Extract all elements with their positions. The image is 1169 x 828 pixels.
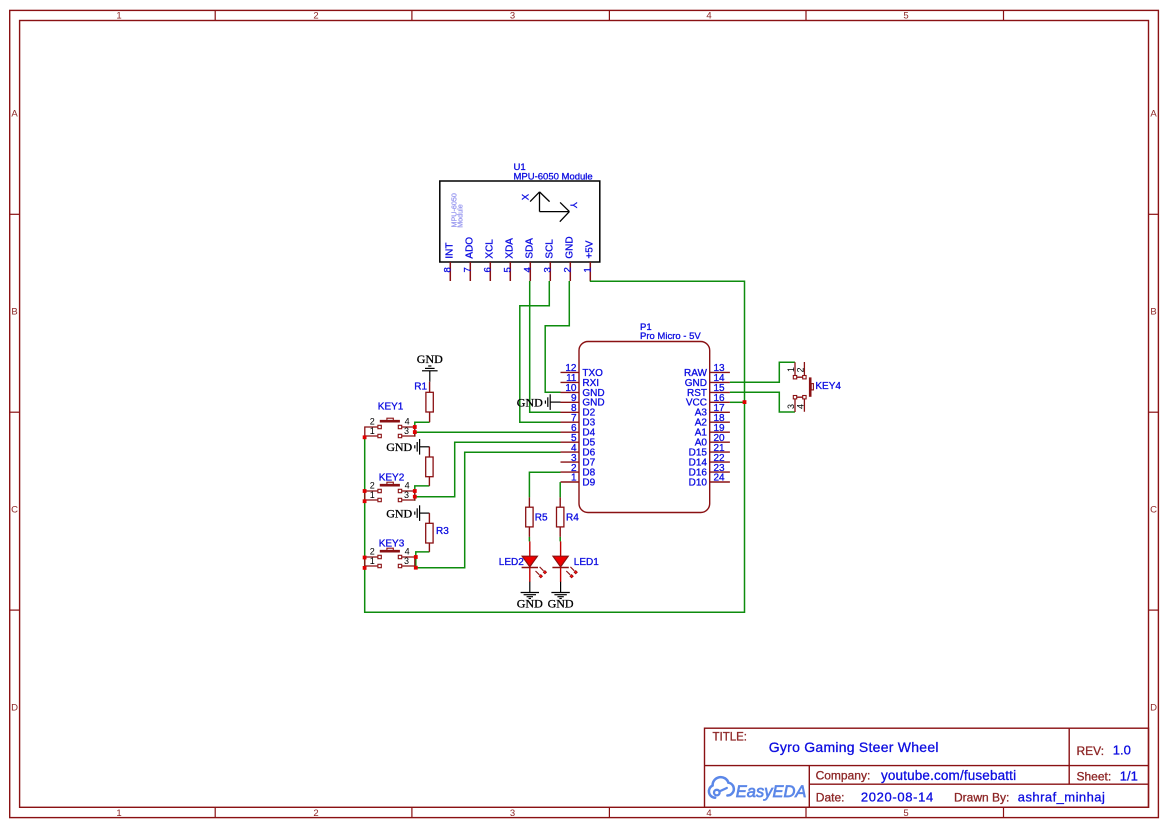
P1 pin 9 GND <box>561 393 605 409</box>
svg-text:XCL: XCL <box>485 239 496 259</box>
svg-text:2: 2 <box>313 11 318 22</box>
svg-text:GND: GND <box>386 506 412 520</box>
svg-text:7: 7 <box>462 267 473 272</box>
P1 pin 6 D4 <box>561 423 596 439</box>
svg-text:8: 8 <box>442 267 453 272</box>
IC P1 Pro Micro body <box>579 342 710 513</box>
svg-text:4: 4 <box>796 404 806 409</box>
junction KEY1 pin4 <box>413 425 417 429</box>
svg-text:R4: R4 <box>566 512 579 523</box>
svg-text:Date:: Date: <box>816 790 845 804</box>
svg-text:2: 2 <box>370 546 375 556</box>
title block outline <box>705 728 1149 807</box>
svg-text:A: A <box>1150 109 1157 120</box>
junction KEY3 pin1 <box>363 566 367 570</box>
svg-text:6: 6 <box>482 267 493 272</box>
P1 pin 18 A2 <box>695 413 730 429</box>
resistor R5 <box>526 497 533 537</box>
junction VCC rail <box>743 400 747 404</box>
svg-text:A: A <box>11 109 18 120</box>
frame row letters left <box>11 109 18 714</box>
junction KEY1 pin1 <box>363 435 367 439</box>
switch KEY3 <box>365 548 415 568</box>
resistor R1 <box>426 382 433 422</box>
svg-text:B: B <box>1150 307 1156 318</box>
resistor R3 <box>426 513 433 552</box>
svg-text:INT: INT <box>445 242 456 258</box>
U1 pin 8 INT <box>442 242 455 281</box>
svg-text:1: 1 <box>116 808 121 819</box>
P1 pin 4 D6 <box>561 443 596 459</box>
svg-text:D: D <box>11 703 18 714</box>
U1 pin 7 ADO <box>462 237 475 281</box>
svg-text:1: 1 <box>370 556 375 566</box>
svg-text:TITLE:: TITLE: <box>713 731 748 743</box>
svg-text:1.0: 1.0 <box>1113 743 1131 758</box>
svg-text:GND: GND <box>417 352 443 366</box>
svg-text:KEY1: KEY1 <box>378 401 404 412</box>
svg-text:GND: GND <box>548 597 574 611</box>
svg-text:4: 4 <box>522 267 533 272</box>
resistor R4 <box>557 497 564 537</box>
wire D8 to R5 <box>529 472 560 497</box>
IC U1 MPU-6050 Module body <box>440 181 600 262</box>
junction KEY3 pin3 <box>414 566 418 570</box>
junction KEY2 pin4 <box>413 489 417 493</box>
U1 pin 3 SCL <box>542 239 555 281</box>
P1 pin 24 D10 <box>689 473 730 489</box>
ground flag for R2 <box>415 439 430 455</box>
svg-text:GND: GND <box>565 236 576 258</box>
svg-text:REV:: REV: <box>1077 744 1105 758</box>
U1 pin 5 XDA <box>502 238 515 281</box>
P1 pin 21 D15 <box>689 443 730 459</box>
U1 pin 1 +5V <box>582 240 595 281</box>
svg-text:R1: R1 <box>414 382 427 393</box>
svg-text:5: 5 <box>903 11 908 22</box>
svg-text:D10: D10 <box>689 477 708 488</box>
U1 pin 2 GND <box>562 236 575 281</box>
svg-text:LED1: LED1 <box>574 557 599 568</box>
frame column numbers bottom <box>116 808 908 819</box>
svg-text:2: 2 <box>313 808 318 819</box>
svg-text:GND: GND <box>517 597 543 611</box>
wire R1 to KEY1 <box>415 422 430 436</box>
svg-text:3: 3 <box>404 556 409 566</box>
svg-text:ashraf_minhaj: ashraf_minhaj <box>1018 790 1106 805</box>
svg-text:D: D <box>1150 703 1157 714</box>
svg-text:3: 3 <box>542 267 553 272</box>
wire KEY3 to D6 <box>416 452 561 567</box>
LED LED2 <box>522 541 548 582</box>
P1 pin 11 RXI <box>561 373 600 389</box>
svg-text:2020-08-14: 2020-08-14 <box>861 790 934 805</box>
P1 pin 19 A1 <box>695 423 730 439</box>
P1 pin 22 D14 <box>689 453 730 469</box>
P1 pin 17 A3 <box>695 403 730 419</box>
svg-text:EasyEDA: EasyEDA <box>736 783 807 801</box>
P1 pin 8 D2 <box>561 403 596 419</box>
P1 pin 7 D3 <box>561 413 596 429</box>
svg-text:C: C <box>11 505 18 516</box>
svg-text:GND: GND <box>517 395 543 409</box>
ground flag at P1 pin 9 <box>545 394 560 410</box>
wire P1 RST15 to KEY4 pin3 <box>730 392 795 412</box>
wire R4 to LED1 <box>559 537 561 542</box>
svg-text:2: 2 <box>370 416 375 426</box>
U1 inner part name rotated <box>450 193 465 228</box>
wire P1 GND14 to KEY4 pin1 <box>730 362 795 382</box>
svg-text:5: 5 <box>502 267 513 272</box>
P1 pin 3 D7 <box>561 453 596 469</box>
wire R2 to KEY2 <box>415 486 430 501</box>
svg-text:4: 4 <box>706 11 711 22</box>
svg-text:1: 1 <box>370 490 375 500</box>
U1 pin 6 XCL <box>482 239 495 281</box>
svg-text:3: 3 <box>510 11 515 22</box>
junction KEY2 pin3 <box>413 495 417 499</box>
svg-text:3: 3 <box>404 426 409 436</box>
switch KEY2 <box>365 482 415 501</box>
wire P1 VCC16 to rail <box>730 401 745 403</box>
LED LED1 <box>552 541 578 582</box>
wire U1 GND to P1 pin10 <box>545 281 569 392</box>
EasyEDA logo cloud icon <box>709 777 734 798</box>
svg-text:Module: Module <box>456 204 465 228</box>
svg-text:1: 1 <box>582 267 593 272</box>
svg-text:1: 1 <box>571 473 577 484</box>
svg-text:KEY4: KEY4 <box>815 381 841 392</box>
svg-text:2: 2 <box>562 267 573 272</box>
P1 pin 10 GND <box>561 383 605 399</box>
frame column numbers top <box>116 11 908 22</box>
ground flag under LED1 <box>551 582 569 599</box>
ground flag under LED2 <box>521 582 539 599</box>
KEY4 pin numbers <box>786 367 806 409</box>
junction KEY1 pin3 <box>413 430 417 434</box>
svg-text:1: 1 <box>786 367 796 372</box>
svg-text:D9: D9 <box>582 477 595 488</box>
svg-text:Company:: Company: <box>816 769 871 783</box>
svg-text:3: 3 <box>786 404 796 409</box>
wire SCL to D3 <box>520 281 561 422</box>
svg-text:SDA: SDA <box>525 238 536 259</box>
svg-text:R5: R5 <box>535 512 548 523</box>
svg-text:3: 3 <box>510 808 515 819</box>
P1 pin 13 RAW <box>684 363 730 379</box>
svg-text:Drawn By:: Drawn By: <box>954 790 1009 804</box>
svg-text:Gyro Gaming Steer Wheel: Gyro Gaming Steer Wheel <box>769 739 939 755</box>
P1 pin 23 D16 <box>689 463 730 479</box>
junction KEY2 pin1 <box>363 499 367 503</box>
P1 pin 15 RST <box>687 383 730 399</box>
svg-text:5: 5 <box>903 808 908 819</box>
U1 axis icon <box>530 192 569 222</box>
ground flag for R3 <box>415 505 430 521</box>
svg-text:2: 2 <box>370 480 375 490</box>
svg-text:X: X <box>520 193 531 200</box>
svg-text:C: C <box>1150 505 1157 516</box>
svg-text:Pro Micro - 5V: Pro Micro - 5V <box>640 331 701 342</box>
svg-text:KEY3: KEY3 <box>379 539 405 550</box>
resistor R2 (unlabeled) <box>426 447 433 486</box>
wire +5V: U1 pin1 to right rail, bottom rail, left rail <box>365 281 745 612</box>
svg-text:4: 4 <box>405 416 410 426</box>
P1 pin 14 GND <box>685 373 730 389</box>
wire R5 to LED2 <box>528 537 530 542</box>
junction KEY3 pin2 <box>363 556 367 560</box>
svg-text:+5V: +5V <box>585 240 596 258</box>
svg-text:GND: GND <box>386 440 412 454</box>
P1 pin 16 VCC <box>686 393 730 409</box>
svg-text:ADO: ADO <box>465 237 476 259</box>
P1 pin 12 TXO <box>561 363 604 379</box>
svg-text:KEY2: KEY2 <box>379 472 405 483</box>
svg-text:B: B <box>11 307 17 318</box>
svg-text:R3: R3 <box>436 526 449 537</box>
svg-text:XDA: XDA <box>505 238 516 259</box>
switch KEY4 <box>793 362 813 412</box>
junction KEY3 pin4 <box>414 555 418 559</box>
P1 pin 2 D8 <box>561 463 596 479</box>
svg-text:4: 4 <box>405 546 410 556</box>
switch KEY1 <box>365 418 415 437</box>
wire KEY1 to D4 <box>415 431 561 433</box>
svg-text:1: 1 <box>370 426 375 436</box>
U1 pin 4 SDA <box>522 238 535 281</box>
svg-text:1/1: 1/1 <box>1120 769 1138 784</box>
P1 pin 20 A0 <box>695 433 730 449</box>
P1 pin 5 D5 <box>561 433 596 449</box>
ground flag above R1 <box>422 366 438 382</box>
svg-text:2: 2 <box>796 367 806 372</box>
svg-text:Y: Y <box>568 202 579 209</box>
wire KEY2 to D5 <box>415 442 561 496</box>
frame row letters right <box>1150 109 1157 714</box>
wire R3 to KEY3 <box>416 552 430 568</box>
P1 pin 1 D9 <box>561 473 596 489</box>
svg-text:3: 3 <box>404 490 409 500</box>
svg-text:4: 4 <box>405 480 410 490</box>
wire SDA to D2 <box>530 281 561 412</box>
svg-text:24: 24 <box>714 473 726 484</box>
svg-text:MPU-6050 Module: MPU-6050 Module <box>514 171 593 182</box>
wire D9 to R4 <box>559 482 561 497</box>
svg-text:SCL: SCL <box>545 239 556 259</box>
svg-text:LED2: LED2 <box>499 557 524 568</box>
junction KEY2 pin2 <box>363 489 367 493</box>
svg-text:4: 4 <box>706 808 711 819</box>
svg-text:Sheet:: Sheet: <box>1077 770 1112 784</box>
svg-text:1: 1 <box>116 11 121 22</box>
svg-text:youtube.com/fusebatti: youtube.com/fusebatti <box>881 768 1016 783</box>
